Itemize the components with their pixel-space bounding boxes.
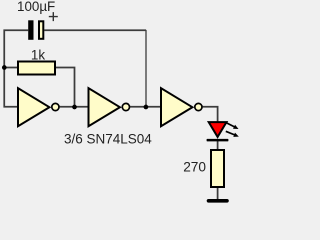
svg-text:3/6 SN74LS04: 3/6 SN74LS04 <box>64 132 152 147</box>
svg-text:270: 270 <box>183 160 206 175</box>
svg-text:100µF: 100µF <box>17 0 55 14</box>
svg-text:1k: 1k <box>31 48 45 63</box>
